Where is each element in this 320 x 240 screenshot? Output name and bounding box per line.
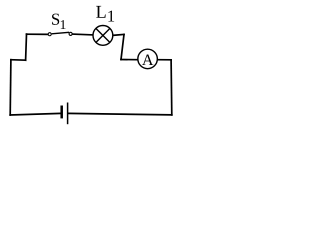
label L1 [96,6,114,22]
switch blade [52,32,69,34]
lamp L1 [93,26,113,46]
switch left contact [48,33,51,36]
wire step horizontal [11,59,26,62]
wire left inner vertical [25,34,28,60]
battery [62,103,68,125]
wire ammeter left to corner [121,59,137,61]
switch right contact [69,32,72,35]
battery positive plate (long thin) [67,103,69,125]
wire battery to bottom right [68,113,171,115]
wire ammeter right [158,59,171,61]
wire right vertical [170,60,173,115]
battery negative plate (short thick) [60,106,63,119]
wire lamp right stub [113,33,124,36]
switch S1 [48,32,72,35]
wire mid vertical (lamp to ammeter) [121,34,124,59]
wire switch to lamp [72,33,93,36]
label S1 [52,14,66,29]
ammeter A [138,49,158,69]
wire left outer vertical [9,60,12,115]
wire top-left horizontal [27,33,49,35]
wire bottom left to battery [10,113,60,115]
